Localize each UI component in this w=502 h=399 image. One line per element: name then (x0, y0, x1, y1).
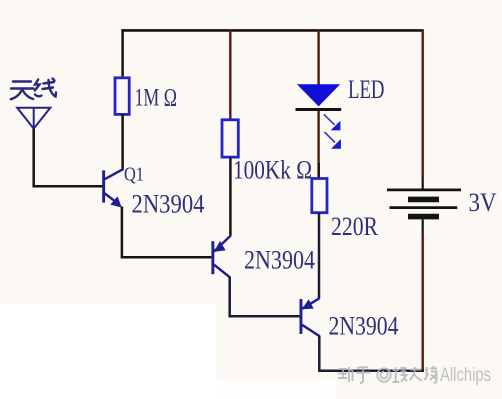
resistor R3 220R (312, 179, 327, 213)
wire: right vertical from top rail to battery (dark red) (422, 29, 424, 176)
wire: top horizontal rail (121, 29, 423, 32)
svg-text:2N3904: 2N3904 (244, 246, 315, 275)
label antenna (tian xian) (11, 79, 56, 100)
antenna symbol (17, 108, 50, 129)
svg-text:3V: 3V (469, 188, 497, 217)
wire: mid vertical from top rail to R2 (dark red) (229, 29, 231, 120)
wire: R2 bottom down to Q2 collector (229, 157, 232, 236)
watermark zhihu @yingzhicheng Allchips (338, 365, 491, 386)
transistor Q2 collector diagonal (214, 236, 231, 252)
wire: battery bottom stub (422, 220, 424, 235)
LED cathode bar (296, 108, 342, 111)
bg white patch (0, 304, 216, 399)
wire: left vertical from top rail to R1 (121, 29, 124, 78)
battery plate 3 (long +) (390, 206, 458, 209)
svg-text:1M Ω: 1M Ω (135, 83, 178, 112)
svg-text:2N3904: 2N3904 (132, 189, 205, 218)
battery plate 4 (short -) (408, 214, 439, 220)
LED light arrow 1 (324, 114, 341, 130)
svg-text:100Kk Ω: 100Kk Ω (233, 155, 312, 184)
wire: Q1 emitter down and right to Q2 base (122, 207, 211, 258)
wire: right vertical battery to bottom rail (dark red) (422, 233, 424, 371)
transistor Q1 collector diagonal (105, 169, 124, 179)
LED D1 triangle (297, 84, 340, 106)
transistor Q3 collector arrowhead (302, 299, 314, 309)
LED light arrow 2 (324, 132, 341, 149)
transistor Q3 emitter diagonal (302, 325, 319, 336)
resistor R1 1M (115, 78, 129, 115)
resistor R2 100K (222, 120, 238, 157)
wire: Q3 emitter down and right to battery bottom (319, 336, 424, 371)
svg-text:2N3904: 2N3904 (329, 312, 399, 341)
wire: LED vertical from top rail (dark red) (317, 29, 319, 85)
battery plate 2 (short -) (408, 197, 439, 203)
wire: LED cathode down to R3 (dark red then black) (317, 111, 319, 164)
svg-text:220R: 220R (331, 212, 379, 241)
wire: battery top stub (422, 176, 424, 189)
transistor Q2 emitter diagonal (214, 265, 230, 278)
transistor Q1 emitter diagonal (105, 193, 119, 203)
transistor Q3 base bar (300, 299, 303, 334)
transistor Q2 collector arrowhead (214, 241, 226, 252)
wire: R1 bottom to Q1 collector (121, 114, 124, 171)
wire: R3 bottom down to Q3 collector (318, 213, 321, 299)
svg-text:Q1: Q1 (124, 165, 144, 186)
transistor Q1 base bar (102, 170, 105, 202)
wire: Q2 emitter down and right to Q3 base (230, 277, 300, 317)
transistor Q1 emitter arrowhead (110, 196, 121, 207)
battery BT1 plate 1 (long +) (387, 188, 461, 191)
svg-text:Allchips: Allchips (440, 365, 491, 386)
transistor Q2 base bar (211, 241, 214, 274)
wire: antenna down and right to Q1 base (34, 129, 103, 187)
svg-text:LED: LED (348, 75, 385, 104)
transistor Q3 collector diagonal (302, 298, 319, 309)
